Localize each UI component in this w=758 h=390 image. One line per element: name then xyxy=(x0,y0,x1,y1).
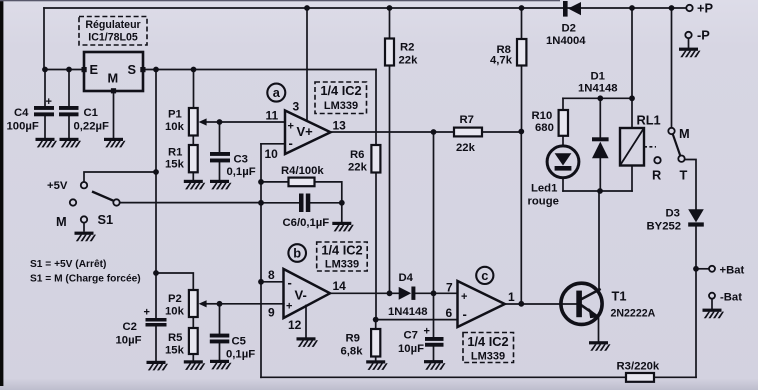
wire D1 stems xyxy=(599,98,601,191)
capacitor C2 xyxy=(116,307,167,347)
svg-text:R10: R10 xyxy=(532,110,553,122)
wire P1 wiper to pin 11 xyxy=(220,121,286,123)
potentiometer P1 xyxy=(165,108,220,136)
svg-text:+: + xyxy=(288,121,294,133)
IC2c label box xyxy=(463,333,514,363)
svg-text:R2: R2 xyxy=(400,42,414,54)
diode D1 xyxy=(578,71,618,159)
resistor R3 xyxy=(617,361,660,382)
svg-text:R1: R1 xyxy=(168,147,182,159)
wire M contact column xyxy=(671,8,673,128)
svg-text:12: 12 xyxy=(288,318,302,332)
svg-text:+: + xyxy=(144,307,150,319)
op-amp U1b triangle xyxy=(268,268,346,332)
svg-text:-: - xyxy=(463,307,467,322)
wire LED branch top xyxy=(562,98,564,110)
svg-text:C2: C2 xyxy=(123,321,137,333)
svg-text:6: 6 xyxy=(446,306,453,320)
ground regulator M xyxy=(104,138,126,148)
wire R4 right lead to ground xyxy=(315,182,342,222)
svg-text:10µF: 10µF xyxy=(398,343,424,355)
svg-text:-P: -P xyxy=(697,28,710,43)
svg-text:680: 680 xyxy=(535,122,554,134)
wire pin 8 xyxy=(261,281,284,283)
svg-text:C7: C7 xyxy=(404,330,418,342)
svg-text:Régulateur: Régulateur xyxy=(85,19,140,31)
regulator IC1 78L05 box xyxy=(82,52,146,93)
svg-text:V+: V+ xyxy=(297,124,314,139)
wire relay column from +P rail xyxy=(631,8,633,128)
svg-text:R: R xyxy=(652,168,661,183)
ground R9 xyxy=(366,360,388,370)
svg-text:+: + xyxy=(424,326,430,338)
capacitor C7 xyxy=(398,326,444,356)
svg-text:R9: R9 xyxy=(346,333,360,345)
svg-text:7: 7 xyxy=(446,281,453,295)
wire +5V terminal branch xyxy=(84,172,156,182)
wire pin 12 to ground xyxy=(305,306,307,338)
wire op-amp c output to T1 base xyxy=(505,303,577,305)
wire +5V rail right of regulator xyxy=(143,69,376,71)
wire C6 left lead xyxy=(261,202,299,204)
ground R5 xyxy=(184,360,206,370)
wire pin 3 column xyxy=(306,8,308,121)
svg-text:11: 11 xyxy=(266,109,279,123)
resistor R2 xyxy=(385,39,418,67)
potentiometer P2 xyxy=(165,290,220,318)
svg-text:+: + xyxy=(46,96,52,108)
capacitor C1 xyxy=(59,106,109,133)
svg-text:10: 10 xyxy=(265,147,279,161)
wire R4 left lead xyxy=(261,181,289,183)
wire R2 column xyxy=(389,8,391,293)
wire regulator M pin to ground xyxy=(113,93,115,138)
svg-text:R4/100k: R4/100k xyxy=(281,165,324,177)
diode D3 xyxy=(647,208,704,233)
svg-text:M: M xyxy=(56,214,67,229)
svg-text:P1: P1 xyxy=(168,109,182,121)
svg-text:LM339: LM339 xyxy=(471,351,505,363)
svg-text:rouge: rouge xyxy=(528,196,559,208)
svg-text:P2: P2 xyxy=(168,293,182,305)
resistor R5 xyxy=(165,328,198,357)
wire C4 stems xyxy=(44,70,46,138)
svg-text:LM339: LM339 xyxy=(324,100,358,112)
wire C6 right lead xyxy=(310,202,342,204)
wire T1 collector up xyxy=(598,191,600,291)
svg-text:C1: C1 xyxy=(84,107,98,119)
op-amp U1b circle xyxy=(288,244,306,262)
svg-text:+5V: +5V xyxy=(47,180,68,192)
wire op-amp a output 13 xyxy=(331,131,522,133)
wire comparator node down to pin 7 xyxy=(433,132,435,337)
svg-text:1N4148: 1N4148 xyxy=(578,83,618,95)
resistor R1 xyxy=(165,145,198,172)
svg-text:15k: 15k xyxy=(165,159,185,171)
svg-text:E: E xyxy=(90,62,99,77)
svg-text:R3/220k: R3/220k xyxy=(617,361,660,373)
wire P2 to R5 xyxy=(192,317,194,328)
resistor R8 xyxy=(490,39,526,67)
ground C3 xyxy=(210,180,232,190)
svg-text:D2: D2 xyxy=(562,23,576,35)
svg-text:+: + xyxy=(286,301,292,313)
wire P1 to R1 xyxy=(192,136,194,146)
resistor R7 xyxy=(454,114,482,154)
wire R9 stems xyxy=(375,320,377,361)
diode D2 xyxy=(546,1,586,47)
svg-text:Led1: Led1 xyxy=(531,183,557,195)
capacitor C6 xyxy=(283,194,330,230)
wire R10 to LED xyxy=(562,136,564,146)
svg-text:M: M xyxy=(679,126,690,141)
svg-text:0,1µF: 0,1µF xyxy=(226,349,255,361)
ground R1 xyxy=(184,180,206,190)
svg-text:M: M xyxy=(108,71,119,86)
ground -Bat xyxy=(703,309,725,319)
svg-text:C5: C5 xyxy=(232,336,246,348)
svg-text:+P: +P xyxy=(697,1,713,16)
svg-text:S1 = +5V (Arrêt): S1 = +5V (Arrêt) xyxy=(30,259,106,270)
svg-text:13: 13 xyxy=(333,119,347,133)
resistor R4 xyxy=(281,165,324,186)
IC2a label box xyxy=(315,82,367,114)
svg-text:BY252: BY252 xyxy=(647,221,682,233)
svg-text:D1: D1 xyxy=(591,71,605,83)
svg-text:R6: R6 xyxy=(350,149,364,161)
ground -P xyxy=(679,48,701,58)
svg-text:1N4004: 1N4004 xyxy=(546,35,586,47)
svg-text:RL1: RL1 xyxy=(637,113,661,128)
svg-text:LM339: LM339 xyxy=(325,259,359,271)
diode D4 xyxy=(388,272,428,318)
svg-text:10k: 10k xyxy=(165,306,185,318)
wire T1 emitter to ground xyxy=(582,306,598,317)
wire D3 to battery column xyxy=(695,227,697,378)
terminal -P xyxy=(685,28,710,43)
svg-text:c: c xyxy=(481,268,488,283)
svg-text:15k: 15k xyxy=(165,345,185,357)
svg-text:R5: R5 xyxy=(168,332,182,344)
switch S1 xyxy=(56,192,120,232)
svg-text:14: 14 xyxy=(333,279,347,293)
IC2b label box xyxy=(317,242,368,271)
op-amp U1c circle xyxy=(476,267,493,284)
relay RL1 xyxy=(620,113,661,166)
op-amp U1c triangle xyxy=(446,281,516,328)
ground C7 xyxy=(424,360,446,370)
wire relay bottom xyxy=(631,166,633,192)
wire T contact to D3 xyxy=(685,160,696,210)
svg-text:0,1µF: 0,1µF xyxy=(227,166,256,178)
wire D4 cathode to pin 7 xyxy=(415,292,457,294)
resistor R9 xyxy=(341,329,381,358)
svg-text:22k: 22k xyxy=(399,55,419,67)
wire column x261 pins 10-8 net xyxy=(260,144,262,377)
op-amp U1a circle xyxy=(267,84,285,102)
resistor R6 xyxy=(348,145,380,174)
LED1 xyxy=(528,146,579,208)
svg-text:1/4 IC2: 1/4 IC2 xyxy=(467,334,508,349)
ground C2 xyxy=(147,361,169,371)
wire R1 to ground xyxy=(192,172,194,180)
regulator label box xyxy=(79,17,147,46)
wire C7 lower stem xyxy=(433,347,435,360)
wire bottom battery sense xyxy=(261,376,696,378)
svg-text:1/4 IC2: 1/4 IC2 xyxy=(320,83,361,98)
svg-text:-Bat: -Bat xyxy=(720,292,742,304)
svg-text:10k: 10k xyxy=(165,121,185,133)
svg-text:3: 3 xyxy=(293,100,300,114)
svg-text:b: b xyxy=(293,246,301,261)
resistor R10 xyxy=(532,110,569,136)
svg-text:C4: C4 xyxy=(14,107,29,119)
wire P1 top feed xyxy=(193,70,195,109)
wire S1 common to comparator net xyxy=(120,202,261,204)
svg-text:IC1/78L05: IC1/78L05 xyxy=(88,32,138,44)
svg-text:D4: D4 xyxy=(399,272,414,284)
svg-text:S1: S1 xyxy=(98,212,114,227)
ground C4 xyxy=(36,138,58,148)
capacitor C5 xyxy=(210,334,255,361)
svg-text:10µF: 10µF xyxy=(116,335,142,347)
svg-text:+: + xyxy=(461,291,467,303)
svg-text:100µF: 100µF xyxy=(7,121,39,133)
wire top +P rail xyxy=(44,7,686,9)
wire parallel top rail D1/R10/relay xyxy=(563,97,632,99)
svg-text:8: 8 xyxy=(268,268,275,282)
wire LED bottom xyxy=(562,178,564,191)
capacitor C3 xyxy=(210,152,256,178)
wire +5V column x156 xyxy=(155,70,157,319)
svg-text:a: a xyxy=(273,85,281,100)
wire +Bat stub xyxy=(696,268,709,270)
wire P2 wiper to pin 9 xyxy=(220,303,284,305)
svg-text:S1 = M (Charge forcée): S1 = M (Charge forcée) xyxy=(30,274,141,285)
relay switch M R T xyxy=(652,126,690,183)
wire pin 10 xyxy=(261,143,285,145)
wire C1 stems xyxy=(68,70,70,138)
ground T1 emitter xyxy=(589,341,611,351)
wire C5 stems xyxy=(219,304,221,360)
wire -Bat stub xyxy=(711,299,713,309)
svg-text:S: S xyxy=(128,62,137,77)
wire collector rail xyxy=(563,190,632,192)
wire R8 column xyxy=(521,8,523,132)
ground pin 12 xyxy=(297,337,319,347)
wire pin 6 xyxy=(376,319,458,321)
ground S1 M contact xyxy=(75,232,97,242)
svg-text:C6/0,1µF: C6/0,1µF xyxy=(283,217,330,229)
svg-text:V-: V- xyxy=(295,288,307,303)
capacitor C4 xyxy=(7,96,55,133)
terminal -Bat xyxy=(709,292,742,304)
svg-text:R7: R7 xyxy=(460,114,474,126)
note S1 positions xyxy=(30,259,141,285)
transistor T1 xyxy=(561,283,656,324)
svg-text:22k: 22k xyxy=(348,162,368,174)
ground C1 xyxy=(60,138,82,148)
wire -P stub xyxy=(688,38,690,48)
ground C5 xyxy=(210,360,232,370)
wire left drop from top rail xyxy=(43,8,45,70)
wire op-amp b output 14 to D4 xyxy=(330,292,399,294)
terminal +P xyxy=(686,1,713,16)
wire R8 junction down to base node xyxy=(520,132,522,304)
wire +5V rail left segment xyxy=(44,69,84,71)
svg-text:6,8k: 6,8k xyxy=(341,346,364,358)
op-amp U1a triangle xyxy=(265,100,347,162)
wire C3 stems xyxy=(219,122,221,180)
svg-text:-: - xyxy=(289,136,293,151)
svg-text:1/4 IC2: 1/4 IC2 xyxy=(321,243,362,258)
svg-text:2N2222A: 2N2222A xyxy=(611,308,656,320)
svg-text:0,22µF: 0,22µF xyxy=(74,121,109,133)
wire R5 to ground xyxy=(192,354,194,360)
svg-text:+Bat: +Bat xyxy=(720,265,745,277)
svg-text:1: 1 xyxy=(508,290,515,304)
svg-text:4,7k: 4,7k xyxy=(490,55,513,67)
wire P2 top feed xyxy=(156,273,193,290)
wire rail corner down to R6 xyxy=(375,70,377,320)
svg-text:D3: D3 xyxy=(666,208,680,220)
svg-text:-: - xyxy=(288,275,292,290)
terminal +5V xyxy=(47,180,87,192)
svg-text:22k: 22k xyxy=(456,142,476,154)
svg-text:9: 9 xyxy=(268,306,275,320)
ground R4/C6 xyxy=(332,222,354,232)
wire C2 stem lower xyxy=(155,327,157,361)
svg-text:1N4148: 1N4148 xyxy=(388,306,428,318)
terminal +Bat xyxy=(709,265,745,277)
svg-text:T: T xyxy=(680,168,688,183)
svg-text:C3: C3 xyxy=(234,154,248,166)
svg-text:T1: T1 xyxy=(612,289,627,304)
